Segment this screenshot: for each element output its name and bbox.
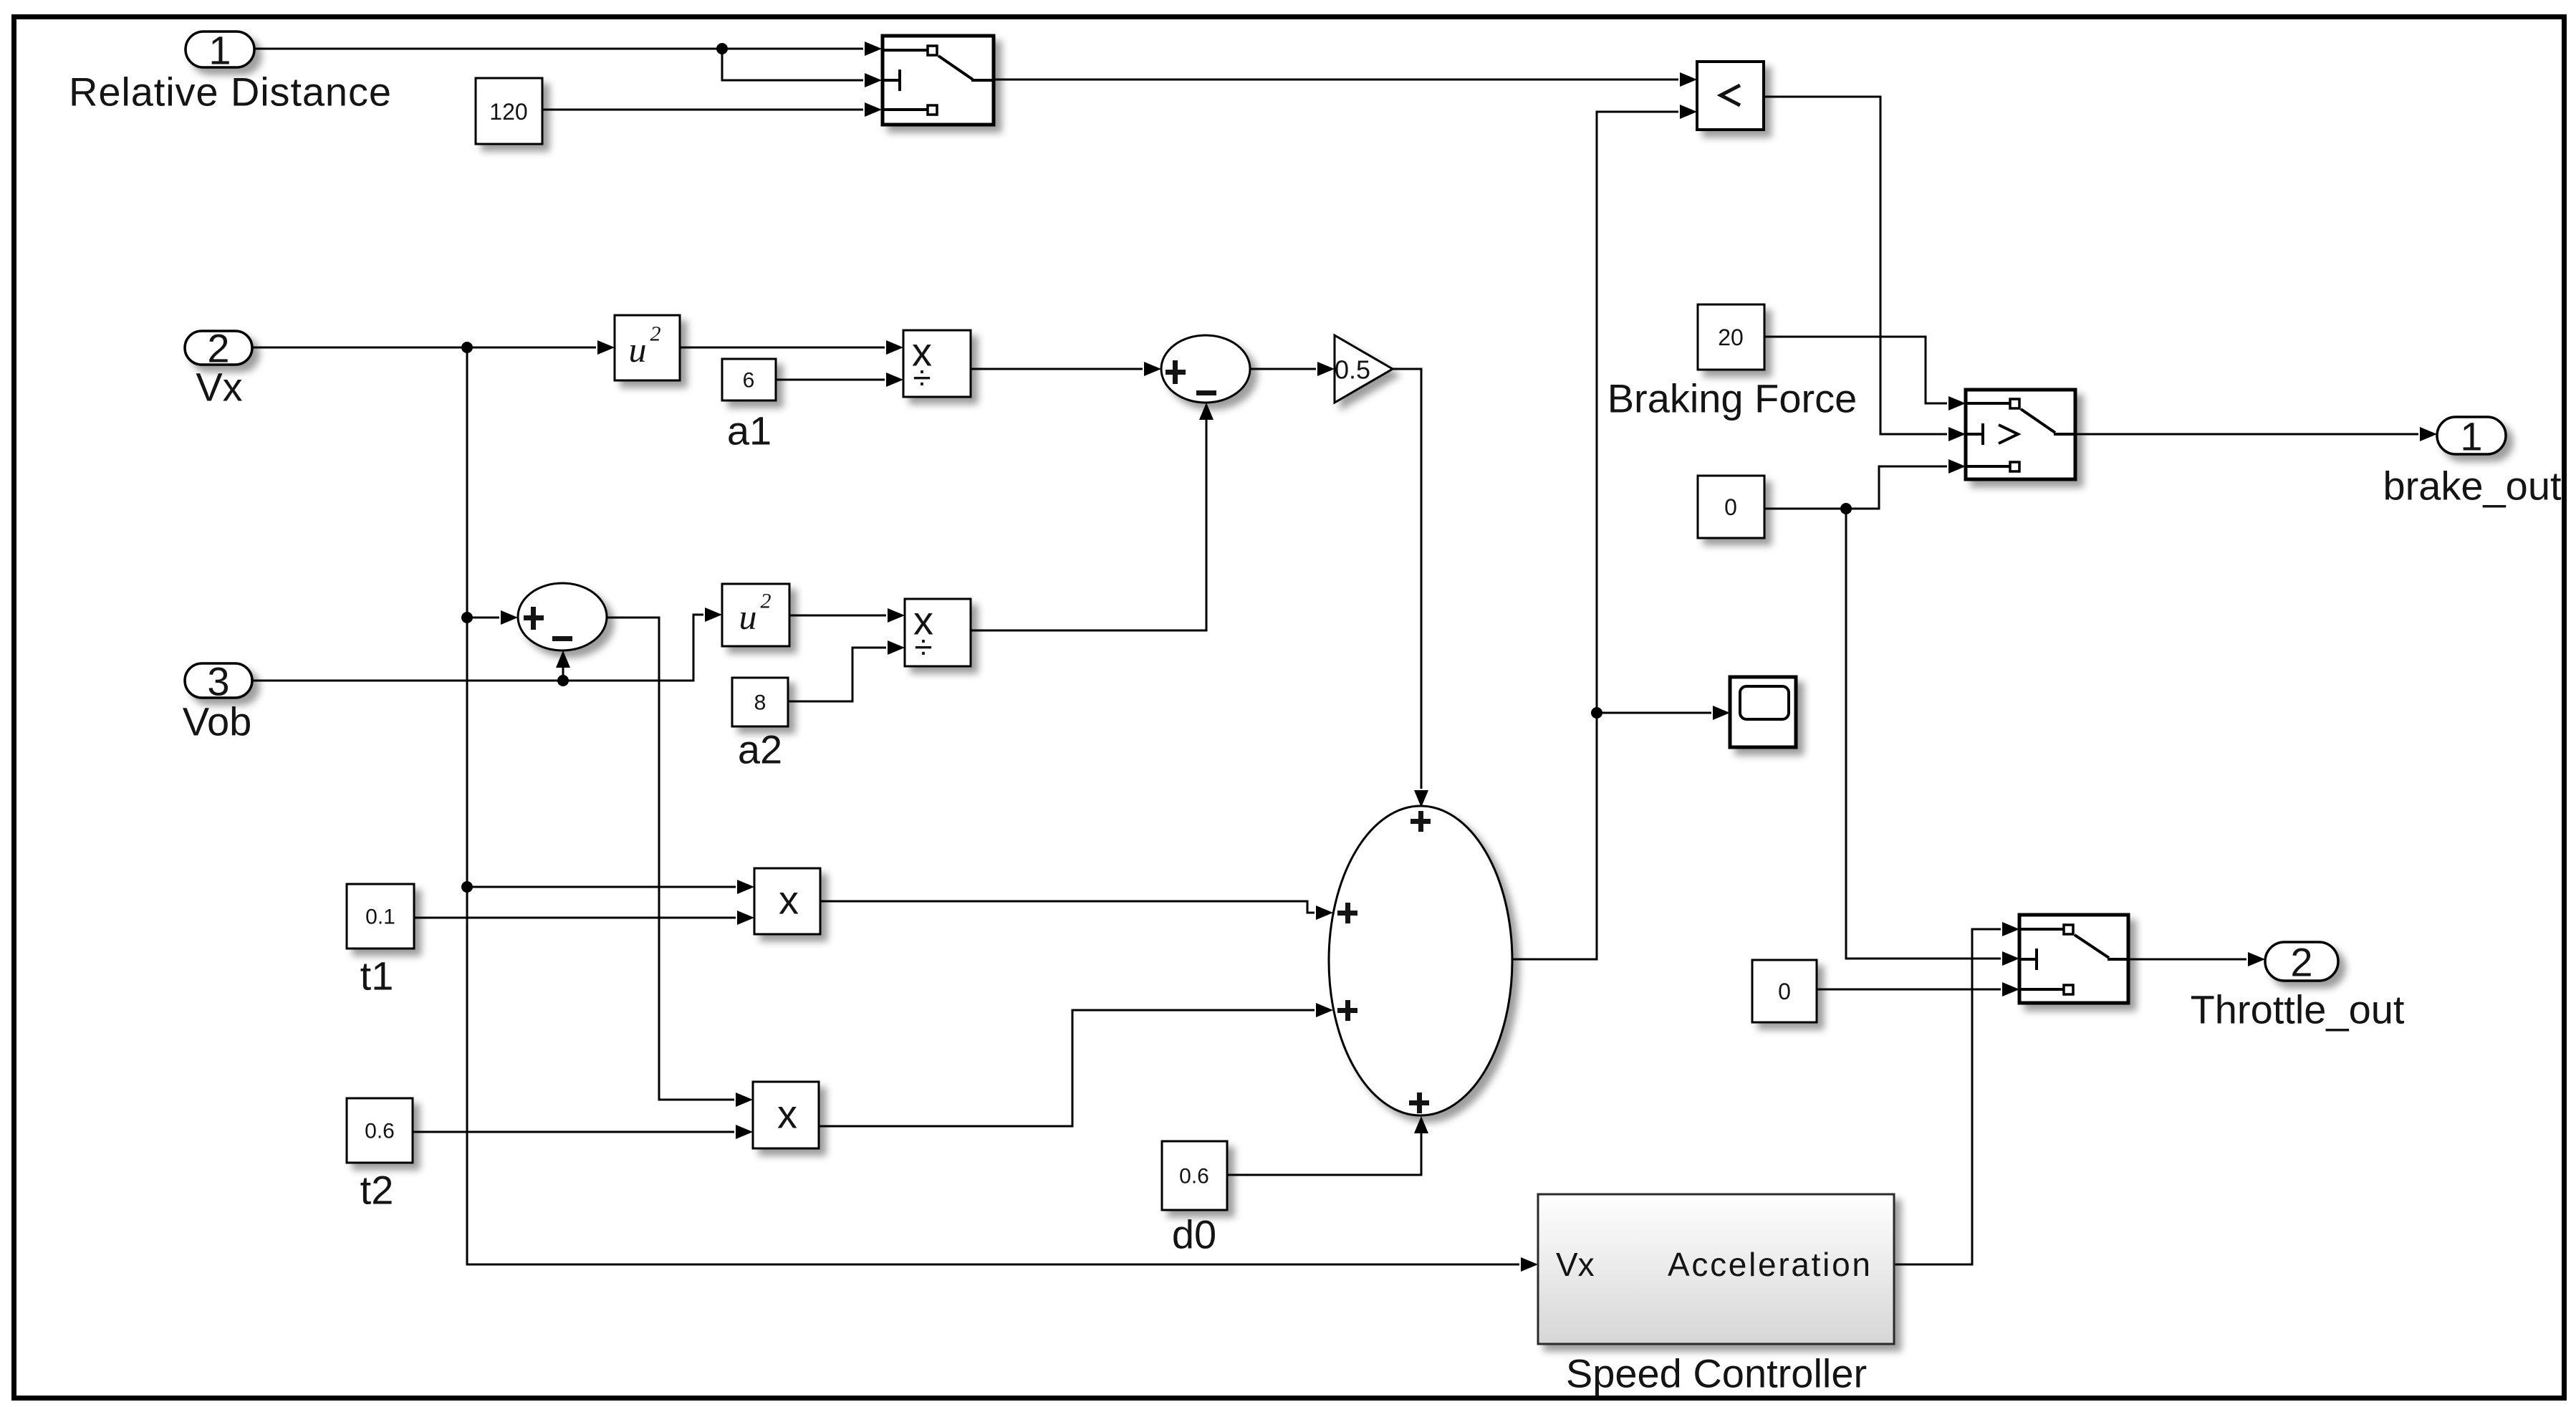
math function u^2 (b): [722, 584, 789, 646]
svg-text:2: 2: [2290, 940, 2312, 985]
svg-text:Speed Controller: Speed Controller: [1566, 1351, 1867, 1396]
svg-text:x: x: [779, 878, 799, 923]
wire Vx to sum1 plus input: [467, 617, 499, 619]
junction on constant 0 wire: [1840, 503, 1852, 514]
junction Vx at sum1: [461, 612, 473, 623]
wire divide2 up to sum2 minus input: [971, 420, 1206, 630]
junction Vx at port line: [461, 342, 473, 353]
wire product t2 output to big sum: [819, 1010, 1315, 1126]
outport 1 brake_out: [2383, 414, 2562, 509]
constant 20 Braking Force: [1607, 304, 1857, 421]
relational operator <: [1697, 62, 1764, 130]
constant 0.6 t2: [347, 1098, 413, 1213]
wire u2 to divide1 input1: [680, 347, 885, 349]
wire divide1 to sum2: [971, 368, 1143, 370]
wire port1 to switch1 input1: [254, 49, 863, 80]
svg-text:brake_out: brake_out: [2383, 464, 2562, 509]
svg-text:6: 6: [743, 369, 755, 393]
switch Switch1: [883, 36, 994, 125]
svg-text:Relative Distance: Relative Distance: [69, 69, 391, 115]
outport 2 Throttle_out: [2191, 940, 2405, 1032]
svg-text:u: u: [739, 597, 757, 637]
svg-text:3: 3: [207, 659, 229, 704]
svg-text:Braking Force: Braking Force: [1607, 376, 1857, 421]
wire relational < output to switch2 control: [1764, 97, 1947, 434]
scope: [1730, 677, 1796, 747]
wire junction 0 down to switch3 control: [1846, 509, 2001, 959]
svg-text:a1: a1: [727, 408, 772, 453]
wire constant 20 to switch2 input1: [1764, 337, 1947, 403]
switch Switch3 throttle: [2019, 915, 2128, 1003]
constant 0 (brake): [1698, 476, 1764, 538]
sum1 circle plus-minus: [518, 583, 607, 650]
wire Vx to product t1 input1: [467, 886, 736, 888]
gain 0.5: [1335, 335, 1393, 403]
svg-text:0: 0: [1724, 494, 1737, 520]
wire switch3 output to Throttle_out: [2128, 959, 2246, 961]
svg-text:x: x: [777, 1092, 797, 1137]
svg-text:t1: t1: [360, 954, 394, 999]
wire constant 6 to divide1 input2: [776, 379, 885, 381]
wire u2b to divide2 input1: [789, 615, 886, 617]
svg-text:Vob: Vob: [183, 699, 252, 744]
wire port3 Vob to u2b block: [252, 615, 703, 681]
wire switch1 output to relational < input1: [994, 79, 1678, 81]
svg-text:1: 1: [208, 28, 231, 73]
svg-text:2: 2: [761, 590, 772, 613]
svg-text:u: u: [629, 330, 647, 370]
constant 6 a1: [722, 359, 776, 453]
wire constant d0 up to big sum bottom: [1227, 1133, 1421, 1175]
wire product t1 output to big sum: [820, 901, 1315, 913]
svg-text:Acceleration: Acceleration: [1668, 1246, 1870, 1283]
svg-text:0.5: 0.5: [1335, 355, 1370, 385]
svg-text:2: 2: [650, 322, 661, 346]
svg-text:8: 8: [754, 691, 766, 715]
wire constant 0b to switch3 input3: [1817, 989, 2001, 991]
wire sum1 output down to product t2: [607, 618, 734, 1100]
switch Switch2 brake: [1966, 390, 2075, 479]
wire constant 0 to switch2 input3: [1764, 466, 1947, 509]
junction Vx at product t1: [461, 881, 473, 893]
wire switch2 output to brake_out: [2075, 433, 2418, 436]
svg-text:20: 20: [1718, 325, 1744, 350]
constant 8 a2: [732, 678, 788, 772]
svg-text:0: 0: [1778, 979, 1791, 1004]
wire gain down to big sum top: [1393, 369, 1421, 789]
math function u^2 (a): [615, 315, 680, 380]
constant 0.6 d0: [1162, 1141, 1227, 1257]
subsystem Speed Controller: [1538, 1194, 1894, 1396]
junction on sum output vertical: [1591, 707, 1602, 719]
wire constant 8 to divide2 input2: [788, 648, 886, 701]
wire Vx vertical down to Speed Controller: [467, 347, 1519, 1264]
constant 0.1 t1: [347, 884, 414, 999]
wire constant t1 to product t1 input2: [414, 917, 736, 919]
divide block 2: [905, 598, 971, 667]
wire sum2 to gain 0.5: [1250, 368, 1316, 370]
wire constant 120 to switch1 input3: [542, 109, 863, 111]
svg-text:Vx: Vx: [196, 365, 242, 410]
junction Vob under sum1: [557, 675, 569, 686]
constant 0 (throttle): [1752, 960, 1817, 1022]
inport 2 Vx: [185, 326, 252, 410]
svg-text:t2: t2: [360, 1168, 394, 1213]
svg-text:Throttle_out: Throttle_out: [2191, 987, 2405, 1032]
wire junction to scope: [1597, 712, 1711, 714]
wire Speed Controller output up to switch3 input1: [1894, 929, 2001, 1264]
wire port2 Vx to u2 block: [252, 347, 596, 349]
wire big sum output up to relational < input2: [1512, 112, 1678, 959]
inport 1 Relative Distance: [69, 28, 391, 115]
svg-text:1: 1: [2460, 414, 2482, 459]
svg-text:a2: a2: [738, 727, 782, 772]
svg-text:Vx: Vx: [1556, 1246, 1595, 1283]
svg-text:0.1: 0.1: [365, 906, 395, 929]
svg-text:0.6: 0.6: [1179, 1165, 1209, 1188]
product t2: [753, 1082, 819, 1148]
constant 120: [476, 78, 542, 144]
wire Vob up into sum1 minus input: [562, 668, 564, 681]
svg-text:÷: ÷: [914, 628, 932, 666]
svg-text:÷: ÷: [913, 359, 931, 396]
svg-text:120: 120: [489, 99, 527, 125]
product t1: [754, 868, 820, 934]
sum2 circle plus-minus: [1161, 335, 1250, 403]
svg-text:0.6: 0.6: [365, 1120, 395, 1143]
junction on Relative Distance wire: [716, 43, 728, 54]
big sum ellipse: [1329, 806, 1512, 1115]
wire constant t2 to product t2 input2: [413, 1131, 734, 1133]
inport 3 Vob: [183, 659, 252, 744]
divide block 1: [903, 330, 971, 398]
svg-text:d0: d0: [1172, 1212, 1216, 1257]
